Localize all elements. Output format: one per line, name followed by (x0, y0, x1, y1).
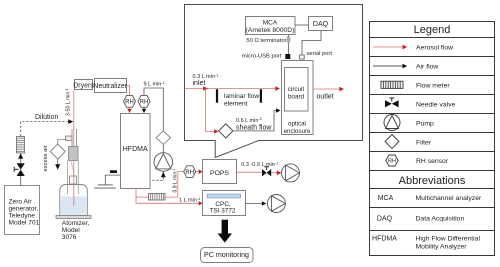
svg-text:RH sensor: RH sensor (416, 158, 449, 165)
svg-text:serial port: serial port (307, 51, 333, 57)
svg-text:RH: RH (185, 170, 194, 176)
svg-text:Data Acquisition: Data Acquisition (416, 216, 465, 223)
svg-text:outlet: outlet (317, 93, 334, 100)
svg-text:RH: RH (125, 100, 134, 106)
svg-text:High Flow Differential: High Flow Differential (416, 236, 481, 243)
svg-text:Neutralizer: Neutralizer (93, 83, 128, 90)
svg-text:PC monitoring: PC monitoring (204, 251, 249, 259)
svg-text:MCA: MCA (378, 195, 394, 202)
svg-text:DAQ: DAQ (313, 21, 329, 28)
svg-text:RH: RH (388, 159, 396, 165)
svg-text:HFDMA: HFDMA (123, 146, 148, 153)
svg-text:inlet: inlet (193, 80, 206, 87)
svg-text:Multichannel analyzer: Multichannel analyzer (416, 195, 482, 202)
svg-text:MCA: MCA (263, 20, 278, 27)
svg-text:TSI 3772: TSI 3772 (210, 208, 236, 215)
svg-text:DAQ: DAQ (377, 216, 393, 223)
svg-text:Aerosol flow: Aerosol flow (416, 45, 453, 52)
svg-text:POPS: POPS (210, 170, 229, 177)
svg-text:excess air: excess air (43, 145, 49, 171)
svg-text:sheath flow: sheath flow (236, 124, 272, 131)
svg-text:RH: RH (140, 100, 149, 106)
svg-text:Air flow: Air flow (416, 64, 438, 71)
svg-text:laminar flow: laminar flow (224, 93, 259, 100)
svg-text:optical: optical (288, 121, 306, 128)
svg-text:Atomizer,: Atomizer, (62, 220, 90, 227)
svg-text:element: element (224, 100, 248, 107)
svg-text:0.9 L min-1: 0.9 L min-1 (172, 168, 179, 192)
svg-text:0.3 -0.9 L min-1: 0.3 -0.9 L min-1 (241, 160, 279, 168)
svg-text:HFDMA: HFDMA (372, 236, 397, 243)
svg-text:Flow meter: Flow meter (416, 83, 450, 90)
svg-text:Model: Model (62, 227, 80, 234)
svg-text:enclosure: enclosure (284, 128, 311, 135)
svg-text:Model 701: Model 701 (9, 220, 40, 227)
svg-text:Legend: Legend (414, 24, 451, 36)
svg-text:3076: 3076 (62, 234, 77, 241)
svg-text:Dilution: Dilution (35, 114, 58, 121)
svg-text:micro-USB port: micro-USB port (242, 54, 282, 60)
svg-text:(Ametek 8000D): (Ametek 8000D) (246, 27, 295, 34)
svg-text:Pump: Pump (416, 120, 434, 127)
svg-text:Abbreviations: Abbreviations (399, 175, 466, 187)
svg-text:Filter: Filter (416, 139, 432, 146)
svg-text:50 Ω terminator: 50 Ω terminator (246, 38, 286, 44)
svg-text:Needle valve: Needle valve (416, 101, 456, 108)
svg-text:board: board (288, 94, 305, 101)
svg-text:Teledyne: Teledyne (9, 213, 36, 220)
svg-text:circuit: circuit (288, 86, 305, 93)
svg-text:generator,: generator, (9, 206, 39, 213)
svg-text:Zero Air: Zero Air (9, 199, 33, 206)
svg-text:Dryers: Dryers (73, 82, 94, 89)
svg-text:Mobility Analyzer: Mobility Analyzer (416, 244, 468, 251)
